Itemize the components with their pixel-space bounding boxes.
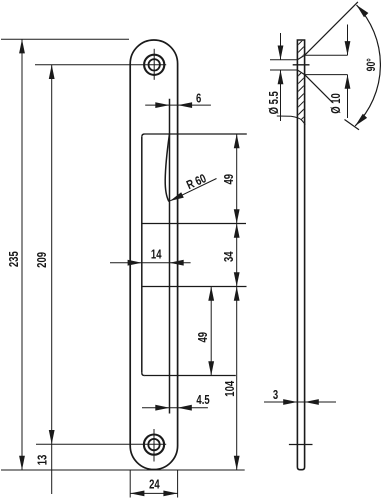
R60 curved edge of upper cutout <box>165 135 169 202</box>
dimension 4.5 left arrow (pointing right) <box>155 405 169 411</box>
dimension 235 line <box>21 39 23 470</box>
dimension 4.5 right arrow (pointing left) <box>178 405 192 411</box>
dimension Ø10 extension bottom <box>305 74 348 76</box>
dimension 104 line <box>236 287 238 471</box>
plate outline (front view rounded plate) <box>130 40 177 470</box>
dimension 34 line <box>236 224 238 287</box>
24 extension line left <box>129 470 131 498</box>
dimension 6 line <box>145 104 211 106</box>
dimension 49 upper top arrow <box>234 134 240 148</box>
svg-text:R 60: R 60 <box>185 172 209 193</box>
screw hole bottom vertical centerline <box>153 429 155 462</box>
dimension 34 top arrow <box>234 224 240 238</box>
side view break line <box>277 116 306 125</box>
dimension 49 lower bottom arrow <box>208 361 214 375</box>
screw hole top vertical centerline <box>153 49 155 80</box>
dimension 24 left arrow (pointing left) <box>130 491 144 497</box>
upper cutout top edge + extension <box>145 133 247 135</box>
svg-text:3: 3 <box>273 389 278 403</box>
top extension line (plate top, 235) <box>1 38 129 40</box>
dimension 49 lower top arrow <box>208 287 214 301</box>
R60 leader line <box>170 179 216 201</box>
dimension 104 bottom arrow <box>234 456 240 470</box>
dimension 24 right arrow (pointing right) <box>163 491 177 497</box>
dimension 235 bottom arrow <box>19 456 25 470</box>
cutouts left edge vertical line <box>141 137 143 373</box>
svg-text:24: 24 <box>149 479 160 493</box>
dimension Ø5.5 lower arrow (pointing up) <box>278 70 284 84</box>
countersink cone upper edge inside bar <box>297 55 304 59</box>
side view bottom hole centerline tick <box>289 444 313 446</box>
svg-text:49: 49 <box>197 332 211 343</box>
dimension Ø5.5 extension top <box>270 59 297 61</box>
dimension 6 left arrow (pointing right) <box>155 102 169 108</box>
bottom extension line (plate bottom, 235/13/104/24) <box>1 469 245 471</box>
dimension Ø10 upper arrow (pointing down) <box>345 41 351 55</box>
upper cutout top-left corner arc <box>142 134 145 137</box>
svg-text:90°: 90° <box>366 58 378 71</box>
countersink upper diagonal (90 deg leg) <box>305 2 358 55</box>
dimension 6 right arrow (pointing left) <box>178 102 192 108</box>
dimension 3 right arrow (pointing left) <box>305 399 319 405</box>
svg-text:14: 14 <box>151 248 162 262</box>
dimension 209 top arrow <box>49 65 55 79</box>
dimension 14 right arrow (pointing left) <box>170 260 184 266</box>
screw hole top inner circle <box>149 59 160 70</box>
dimension 3 left arrow (pointing right) <box>283 399 297 405</box>
screw hole bottom inner circle <box>148 439 159 450</box>
side view plate bar <box>297 40 304 470</box>
screw hole bottom horizontal centerline / 13 extension <box>36 443 166 445</box>
cutouts right edge long vertical line <box>169 99 171 414</box>
svg-text:Ø 5.5: Ø 5.5 <box>268 91 282 114</box>
svg-text:49: 49 <box>223 174 237 185</box>
dimension Ø10 line lower tail <box>347 75 349 118</box>
90 degree arc top arrowhead <box>357 5 369 17</box>
dimension 3 line <box>264 401 336 403</box>
svg-text:235: 235 <box>8 251 22 267</box>
90 degree dimension arc <box>355 5 380 126</box>
dimension Ø10 lower arrow (pointing up) <box>345 75 351 89</box>
dimension 4.5 line <box>142 407 208 409</box>
dimension Ø5.5 line <box>280 33 282 60</box>
dimension 49 lower line <box>210 287 212 376</box>
dimension Ø5.5 upper arrow (pointing down) <box>278 46 284 60</box>
screw hole bottom outer circle <box>144 435 164 455</box>
lower cutout top edge + extension <box>142 286 247 288</box>
svg-text:6: 6 <box>196 92 201 106</box>
svg-text:209: 209 <box>36 252 50 268</box>
countersink lower diagonal (90 deg leg) <box>305 75 333 103</box>
svg-text:13: 13 <box>36 455 50 466</box>
dimension 49 upper bottom arrow <box>234 209 240 223</box>
dimension Ø10 extension top <box>305 54 348 56</box>
dimension 14 left arrow (pointing right) <box>128 260 142 266</box>
lower cutout bottom edge + extension <box>145 375 236 377</box>
screw hole top outer circle <box>144 55 164 75</box>
dimension 235 top arrow <box>19 39 25 53</box>
lower cutout bottom-left corner arc <box>142 373 145 376</box>
countersink cone lower edge inside bar <box>297 70 304 75</box>
dimension 49 upper line <box>236 134 238 224</box>
svg-text:Ø 10: Ø 10 <box>330 93 344 114</box>
upper cutout bottom edge + extension <box>142 223 246 225</box>
svg-text:104: 104 <box>224 380 238 397</box>
screw hole top horizontal centerline / 209 extension <box>35 64 166 66</box>
90 degree arc bottom arrowhead <box>355 114 367 126</box>
dimension 24 line <box>130 492 177 494</box>
dimension Ø10 line <box>347 25 349 56</box>
24 extension line right <box>177 470 179 498</box>
side view hatching <box>293 26 309 128</box>
dimension 34 bottom arrow <box>234 272 240 286</box>
dimension Ø5.5 extension bottom <box>270 69 297 71</box>
dimension 209 bottom arrow / 13 upper arrow (pointing down) <box>49 430 55 444</box>
dimension 14 line <box>110 262 191 264</box>
svg-text:34: 34 <box>223 251 237 262</box>
dimension 104 top arrow <box>234 287 240 301</box>
side view top hole centerline tick <box>293 64 310 66</box>
countersink lower diagonal stub near arc <box>345 120 360 130</box>
dimension Ø5.5 line lower tail <box>280 70 282 121</box>
svg-text:4.5: 4.5 <box>196 394 209 408</box>
R60 leader arrowhead <box>170 192 184 201</box>
dimension 209 line (also carries dimension 13 below) <box>51 65 53 494</box>
